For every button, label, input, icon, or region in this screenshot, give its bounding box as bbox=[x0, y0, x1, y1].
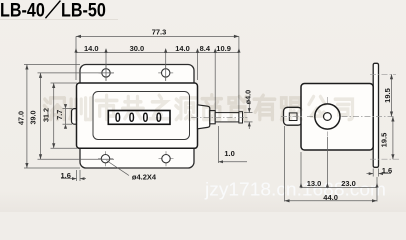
svg-text:19.5: 19.5 bbox=[383, 88, 392, 103]
svg-text:77.3: 77.3 bbox=[152, 27, 167, 36]
svg-text:8.4: 8.4 bbox=[200, 44, 211, 53]
svg-text:47.0: 47.0 bbox=[16, 111, 25, 125]
svg-text:ø4.2X4: ø4.2X4 bbox=[132, 172, 157, 181]
svg-text:jzy1718.cn.1688.com: jzy1718.cn.1688.com bbox=[204, 180, 386, 200]
svg-text:LB-40／LB-50: LB-40／LB-50 bbox=[0, 0, 106, 21]
svg-text:19.5: 19.5 bbox=[379, 133, 388, 148]
svg-text:23.0: 23.0 bbox=[341, 179, 356, 188]
svg-text:30.0: 30.0 bbox=[130, 44, 145, 53]
svg-text:13.0: 13.0 bbox=[307, 179, 322, 188]
svg-text:1.0: 1.0 bbox=[224, 149, 234, 158]
svg-text:0: 0 bbox=[115, 110, 121, 125]
svg-text:0: 0 bbox=[143, 110, 149, 125]
svg-text:1.6: 1.6 bbox=[382, 166, 392, 175]
svg-text:39.0: 39.0 bbox=[29, 111, 38, 125]
svg-text:10.9: 10.9 bbox=[216, 44, 231, 53]
svg-text:14.0: 14.0 bbox=[175, 44, 190, 53]
svg-text:44.0: 44.0 bbox=[323, 193, 338, 202]
svg-text:14.0: 14.0 bbox=[84, 44, 99, 53]
svg-text:1.6: 1.6 bbox=[60, 171, 70, 180]
